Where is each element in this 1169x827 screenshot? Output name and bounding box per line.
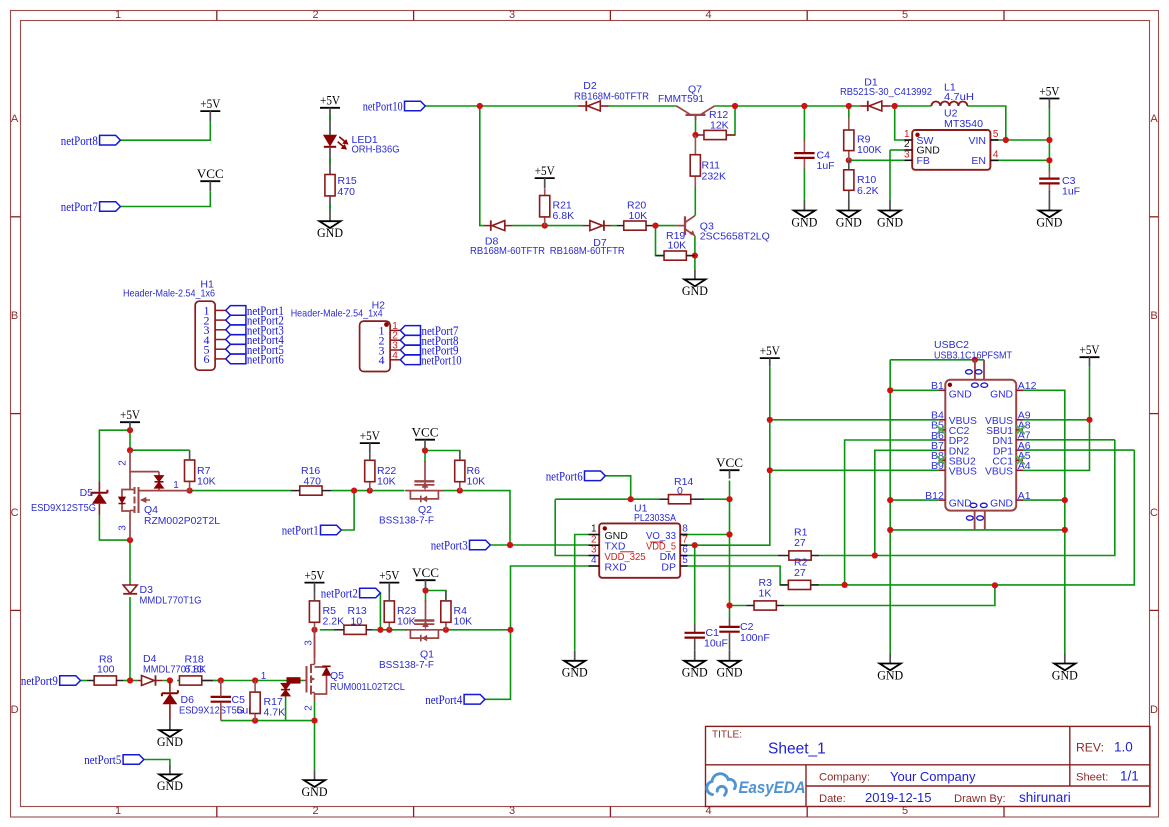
svg-text:RB168M-60TFTR: RB168M-60TFTR (550, 245, 625, 257)
svg-text:TITLE:: TITLE: (712, 730, 742, 741)
svg-text:2: 2 (312, 805, 318, 817)
svg-text:GND: GND (1036, 215, 1062, 229)
svg-text:4: 4 (993, 150, 999, 161)
svg-text:netPort6: netPort6 (247, 353, 284, 367)
svg-text:GND: GND (682, 666, 708, 680)
svg-text:B12: B12 (925, 490, 944, 502)
svg-text:Company:: Company: (819, 772, 870, 784)
svg-text:Sheet:: Sheet: (1076, 772, 1108, 784)
svg-text:4: 4 (379, 353, 385, 367)
svg-text:10K: 10K (197, 475, 216, 487)
svg-text:+5V: +5V (535, 164, 556, 178)
svg-text:GND: GND (682, 284, 708, 298)
svg-text:RXD: RXD (605, 561, 628, 573)
svg-text:BSS138-7-F: BSS138-7-F (379, 659, 434, 671)
svg-text:MMDL770T1G: MMDL770T1G (140, 594, 202, 606)
svg-text:470: 470 (338, 186, 356, 198)
svg-text:EN: EN (971, 155, 986, 167)
svg-text:+5V: +5V (305, 568, 326, 582)
svg-text:A: A (1150, 113, 1158, 125)
svg-text:netPort10: netPort10 (363, 100, 403, 114)
svg-text:5: 5 (682, 555, 688, 566)
svg-text:+5V: +5V (200, 97, 221, 111)
svg-text:3: 3 (509, 9, 515, 21)
svg-text:470: 470 (304, 475, 322, 487)
svg-text:C: C (1150, 507, 1158, 519)
svg-text:ORH-B36G: ORH-B36G (352, 143, 400, 155)
svg-text:C: C (11, 507, 19, 519)
svg-text:FB: FB (917, 155, 930, 167)
svg-text:Drawn By:: Drawn By: (954, 793, 1006, 805)
svg-text:Sheet_1: Sheet_1 (768, 741, 826, 758)
svg-text:MT3540: MT3540 (944, 118, 983, 130)
svg-text:+5V: +5V (1080, 343, 1101, 357)
svg-text:VCC: VCC (716, 456, 743, 470)
svg-text:GND: GND (877, 668, 903, 682)
svg-text:BSS138-7-F: BSS138-7-F (379, 514, 434, 526)
svg-text:0: 0 (677, 485, 683, 497)
svg-text:10uF: 10uF (704, 638, 728, 650)
svg-text:6.2K: 6.2K (857, 185, 879, 197)
svg-text:RB168M-60TFTR: RB168M-60TFTR (574, 91, 649, 103)
svg-text:GND: GND (562, 666, 588, 680)
svg-text:B: B (11, 310, 18, 322)
svg-text:Your Company: Your Company (890, 769, 976, 784)
svg-text:4: 4 (705, 9, 711, 21)
svg-text:4: 4 (591, 555, 597, 566)
svg-text:10K: 10K (397, 615, 416, 627)
svg-text:4.7K: 4.7K (264, 707, 286, 719)
svg-text:GND: GND (302, 785, 328, 799)
svg-text:GND: GND (791, 215, 817, 229)
svg-text:100K: 100K (857, 144, 882, 156)
svg-text:1: 1 (115, 9, 121, 21)
svg-text:1: 1 (591, 524, 597, 535)
svg-text:VCC: VCC (412, 426, 439, 440)
svg-text:10K: 10K (668, 240, 687, 252)
svg-text:VIN: VIN (968, 135, 986, 147)
svg-text:RZM002P02T2L: RZM002P02T2L (144, 515, 220, 527)
svg-text:GND: GND (1052, 668, 1078, 682)
svg-text:100: 100 (97, 664, 115, 676)
svg-text:netPort5: netPort5 (84, 753, 121, 767)
svg-text:1uF: 1uF (817, 160, 835, 172)
svg-text:10K: 10K (454, 615, 473, 627)
svg-text:+5V: +5V (1039, 84, 1060, 98)
svg-text:27: 27 (794, 567, 806, 579)
svg-text:netPort10: netPort10 (422, 353, 462, 367)
svg-text:+5V: +5V (120, 408, 141, 422)
svg-text:2SC5658T2LQ: 2SC5658T2LQ (700, 231, 770, 243)
svg-text:3: 3 (904, 150, 910, 161)
svg-text:6: 6 (204, 352, 210, 366)
svg-text:ESD9X12ST5G: ESD9X12ST5G (31, 502, 96, 514)
svg-text:D: D (1150, 704, 1158, 716)
svg-text:B1: B1 (931, 380, 944, 392)
svg-text:VCC: VCC (412, 566, 439, 580)
svg-text:10K: 10K (377, 475, 396, 487)
svg-text:GND: GND (157, 735, 183, 749)
svg-text:GND: GND (990, 389, 1013, 400)
svg-text:6.8K: 6.8K (185, 664, 207, 676)
svg-text:PL2303SA: PL2303SA (634, 512, 676, 524)
svg-text:netPort7: netPort7 (61, 200, 98, 214)
svg-text:100nF: 100nF (740, 632, 770, 644)
svg-text:netPort4: netPort4 (425, 693, 462, 707)
svg-text:+5V: +5V (320, 94, 341, 108)
svg-text:RUM001L02T2CL: RUM001L02T2CL (330, 681, 405, 693)
svg-text:2019-12-15: 2019-12-15 (865, 790, 932, 805)
svg-text:2.2K: 2.2K (323, 615, 345, 627)
svg-text:GND: GND (157, 779, 183, 793)
svg-text:3: 3 (591, 545, 597, 556)
svg-text:GND: GND (990, 499, 1013, 510)
svg-text:netPort2: netPort2 (321, 587, 358, 601)
svg-text:USB3.1C16PFSMT: USB3.1C16PFSMT (934, 349, 1013, 361)
svg-text:3: 3 (509, 805, 515, 817)
svg-text:6: 6 (682, 545, 688, 556)
svg-text:DP: DP (661, 561, 676, 573)
svg-text:EasyEDA: EasyEDA (739, 779, 806, 797)
svg-text:netPort3: netPort3 (431, 539, 468, 553)
svg-text:VCC: VCC (197, 167, 224, 181)
svg-text:REV:: REV: (1076, 741, 1104, 755)
svg-text:8: 8 (682, 524, 688, 535)
svg-text:Header-Male-2.54_1x4: Header-Male-2.54_1x4 (291, 308, 383, 320)
svg-text:netPort6: netPort6 (546, 469, 583, 483)
svg-text:10K: 10K (629, 210, 648, 222)
svg-text:12K: 12K (710, 120, 729, 132)
svg-text:4: 4 (392, 350, 398, 361)
svg-text:1.0: 1.0 (1114, 740, 1133, 755)
svg-text:1/1: 1/1 (1120, 769, 1139, 784)
svg-text:GND: GND (949, 389, 972, 400)
svg-text:RB521S-30_C413992: RB521S-30_C413992 (840, 86, 932, 98)
svg-text:+5V: +5V (379, 568, 400, 582)
svg-text:3: 3 (304, 640, 315, 646)
svg-text:netPort9: netPort9 (21, 674, 58, 688)
svg-text:VBUS: VBUS (949, 467, 977, 478)
svg-text:27: 27 (794, 537, 806, 549)
svg-text:10: 10 (351, 615, 363, 627)
svg-text:netPort1: netPort1 (282, 524, 319, 538)
svg-text:1uF: 1uF (1062, 186, 1080, 198)
svg-text:A12: A12 (1018, 380, 1037, 392)
svg-text:2: 2 (118, 460, 129, 466)
svg-text:shirunari: shirunari (1019, 790, 1071, 805)
svg-text:1: 1 (115, 805, 121, 817)
svg-text:FMMT591: FMMT591 (658, 93, 704, 105)
svg-text:GND: GND (877, 215, 903, 229)
svg-text:Date:: Date: (819, 793, 846, 805)
svg-text:VBUS: VBUS (985, 467, 1013, 478)
svg-text:+5V: +5V (360, 429, 381, 443)
svg-text:GND: GND (717, 666, 743, 680)
svg-text:Header-Male-2.54_1x6: Header-Male-2.54_1x6 (123, 288, 215, 300)
svg-text:D: D (11, 704, 19, 716)
svg-text:A1: A1 (1018, 490, 1031, 502)
svg-text:D5: D5 (80, 487, 94, 499)
svg-text:4.7uH: 4.7uH (944, 91, 974, 103)
svg-text:GND: GND (949, 499, 972, 510)
svg-text:GND: GND (317, 226, 343, 240)
svg-text:B: B (1150, 310, 1157, 322)
svg-text:1K: 1K (759, 588, 772, 600)
svg-text:+5V: +5V (760, 344, 781, 358)
svg-text:10K: 10K (467, 475, 486, 487)
svg-text:1: 1 (261, 671, 267, 682)
svg-text:5: 5 (993, 129, 999, 140)
svg-text:RB168M-60TFTR: RB168M-60TFTR (470, 245, 545, 257)
svg-text:GND: GND (836, 215, 862, 229)
svg-text:1: 1 (173, 480, 179, 491)
svg-text:A: A (11, 113, 19, 125)
svg-text:3: 3 (118, 525, 129, 531)
svg-text:5: 5 (902, 9, 908, 21)
svg-text:232K: 232K (702, 170, 727, 182)
svg-text:2: 2 (312, 9, 318, 21)
svg-text:6.8K: 6.8K (553, 210, 575, 222)
svg-text:netPort8: netPort8 (61, 134, 98, 148)
svg-text:2: 2 (304, 705, 315, 711)
